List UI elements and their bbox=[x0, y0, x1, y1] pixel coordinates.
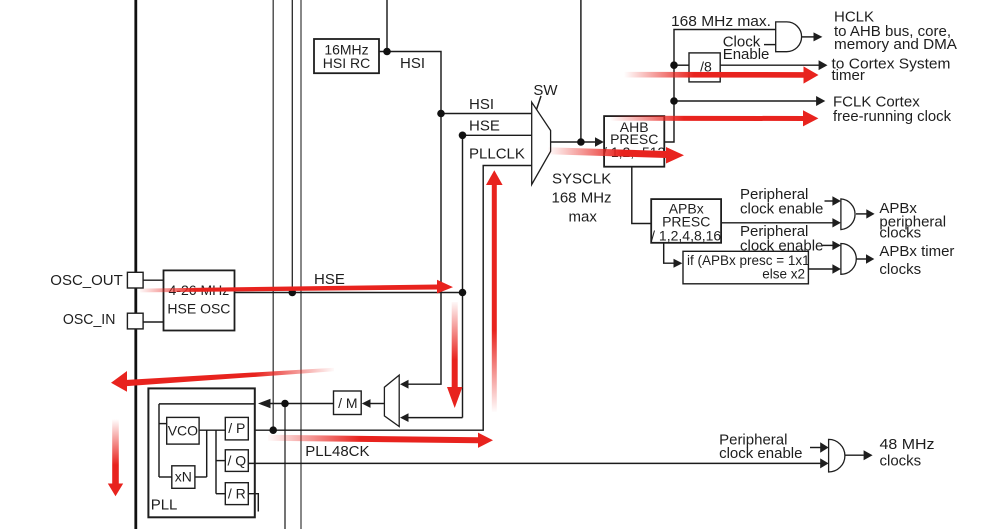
svg-text:HSI: HSI bbox=[469, 96, 494, 113]
svg-text:HSI: HSI bbox=[400, 55, 425, 72]
svg-text:timer: timer bbox=[832, 67, 865, 84]
svg-text:/ Q: / Q bbox=[227, 452, 246, 468]
svg-text:OSC_IN: OSC_IN bbox=[63, 311, 116, 328]
svg-text:memory and DMA: memory and DMA bbox=[834, 36, 957, 53]
svg-text:else x2: else x2 bbox=[762, 267, 805, 282]
svg-text:clock enable: clock enable bbox=[740, 237, 823, 254]
svg-text:OSC_OUT: OSC_OUT bbox=[50, 272, 123, 289]
svg-text:clocks: clocks bbox=[879, 225, 921, 242]
svg-text:SYSCLK: SYSCLK bbox=[552, 171, 611, 188]
svg-text:/ M: / M bbox=[338, 395, 357, 411]
svg-text:clocks: clocks bbox=[880, 452, 922, 469]
svg-text:SW: SW bbox=[533, 82, 558, 99]
svg-text:max: max bbox=[569, 209, 598, 226]
svg-text:APBx timer: APBx timer bbox=[879, 243, 954, 260]
svg-text:HSE: HSE bbox=[469, 118, 500, 135]
svg-text:HSE: HSE bbox=[314, 271, 345, 288]
svg-text:PLLCLK: PLLCLK bbox=[469, 146, 525, 163]
svg-text:HSI RC: HSI RC bbox=[323, 55, 370, 71]
svg-text:xN: xN bbox=[175, 469, 192, 485]
svg-text:48 MHz: 48 MHz bbox=[880, 436, 935, 453]
svg-text:/ R: / R bbox=[228, 485, 246, 501]
svg-text:VCO: VCO bbox=[168, 423, 198, 439]
svg-text:/ P: / P bbox=[228, 420, 245, 436]
svg-text:free-running clock: free-running clock bbox=[833, 108, 951, 125]
svg-text:PLL: PLL bbox=[151, 496, 178, 513]
svg-text:168 MHz max.: 168 MHz max. bbox=[671, 13, 771, 30]
svg-text:Enable: Enable bbox=[723, 46, 770, 63]
svg-text:HSE OSC: HSE OSC bbox=[167, 300, 230, 316]
svg-text:168 MHz: 168 MHz bbox=[552, 190, 612, 207]
svg-text:clocks: clocks bbox=[879, 261, 921, 278]
svg-text:clock enable: clock enable bbox=[740, 200, 823, 217]
svg-text:/ 1,2,4,8,16: / 1,2,4,8,16 bbox=[651, 227, 721, 243]
svg-text:if (APBx presc = 1x1: if (APBx presc = 1x1 bbox=[687, 253, 810, 268]
svg-text:clock enable: clock enable bbox=[719, 445, 802, 462]
svg-text:PLL48CK: PLL48CK bbox=[305, 443, 369, 460]
